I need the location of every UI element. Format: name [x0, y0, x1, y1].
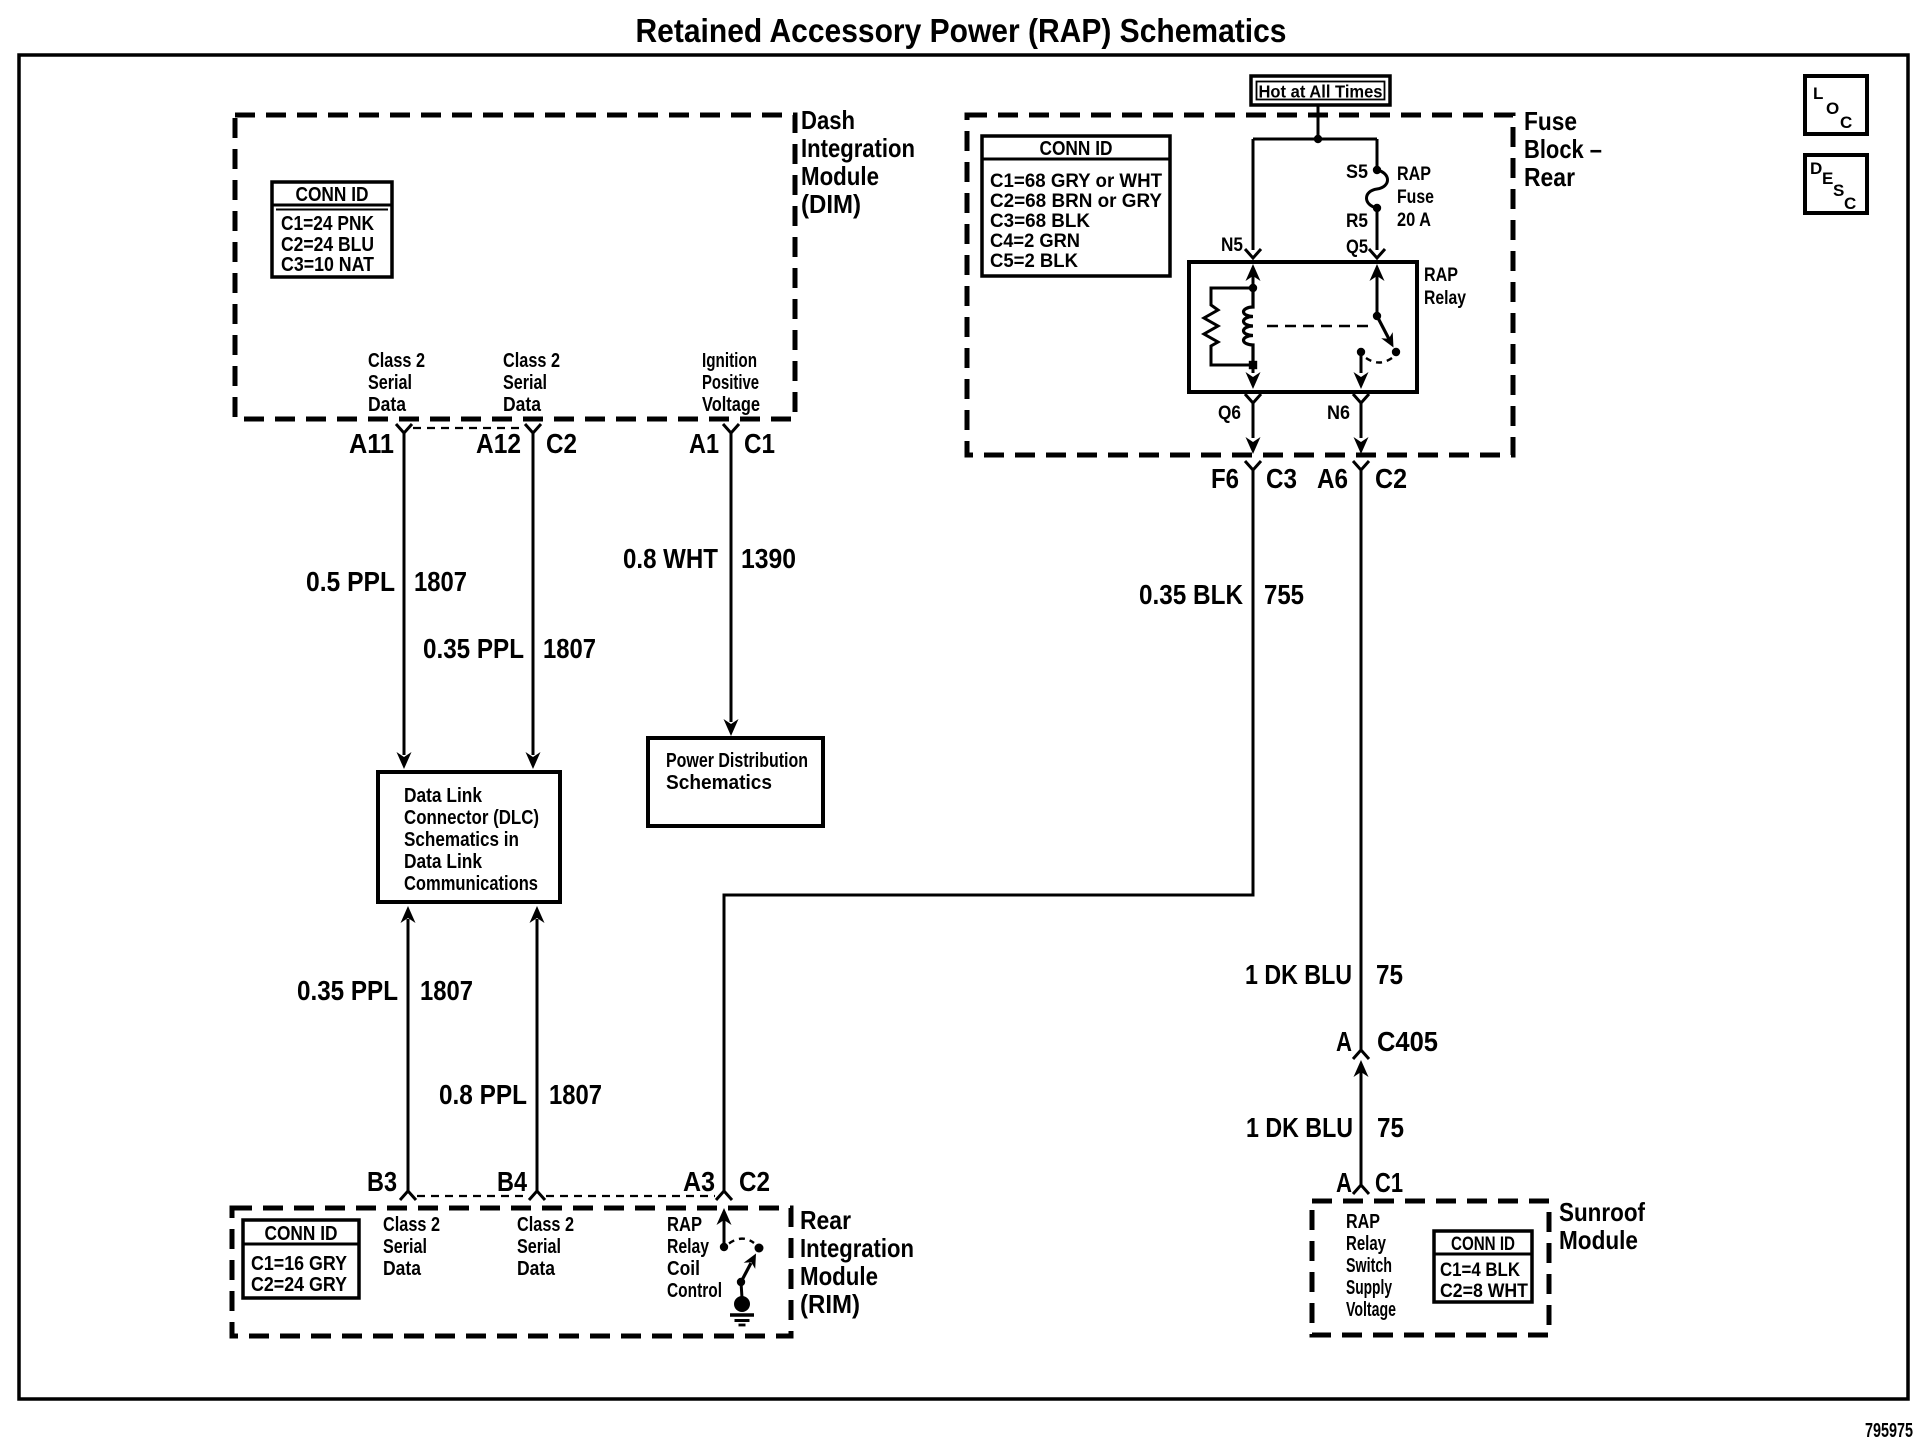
svg-text:Retained Accessory Power (RAP): Retained Accessory Power (RAP) Schematic…: [636, 12, 1287, 49]
fuse value label: RAP Fuse 20 A: [1397, 164, 1434, 231]
svg-text:A6: A6: [1317, 463, 1348, 494]
wire: left branch down to relay coil (N5): [1252, 139, 1255, 250]
module: Dash Integration Module (DIM) dashed outline: [235, 115, 795, 419]
svg-text:C4=2 GRN: C4=2 GRN: [990, 230, 1080, 252]
wire: switch to ground: [741, 1282, 742, 1298]
relay K: RAP Relay box: [1189, 262, 1417, 392]
dashed switch travel arc (RIM): [729, 1239, 754, 1244]
wire: A6 to C405 (1 DK BLU 75): [1360, 470, 1363, 1050]
svg-text:Class 2: Class 2: [368, 350, 425, 372]
svg-text:Fuse: Fuse: [1524, 106, 1577, 136]
pin N6 connector symbol below relay: [1353, 394, 1369, 403]
pin F6 connector symbol (below fuse block): [1245, 461, 1261, 470]
svg-text:Block –: Block –: [1524, 134, 1602, 164]
svg-text:Supply: Supply: [1346, 1277, 1393, 1299]
svg-text:Serial: Serial: [503, 372, 547, 394]
svg-text:(DIM): (DIM): [801, 189, 861, 219]
wire: B4 to DLC (0.8 PPL 1807): [536, 919, 539, 1191]
wire: A11 to DLC (0.5 PPL 1807): [403, 433, 406, 755]
relay coil input arrow (up): [1252, 268, 1255, 288]
pin A12 connector symbol: [525, 424, 541, 433]
svg-text:1807: 1807: [543, 633, 596, 664]
svg-text:Voltage: Voltage: [702, 394, 760, 416]
svg-text:C3=68 BLK: C3=68 BLK: [990, 210, 1090, 232]
svg-text:E: E: [1822, 169, 1833, 188]
svg-text:A11: A11: [349, 428, 394, 459]
svg-text:RAP: RAP: [1397, 164, 1431, 185]
connector C2 dashed link B3-B4: [417, 1195, 528, 1197]
module: Fuse Block - Rear dashed outline: [967, 115, 1513, 455]
svg-text:C1=24 PNK: C1=24 PNK: [281, 213, 374, 235]
svg-text:S5: S5: [1346, 162, 1368, 183]
pin function label: Class 2 Serial Data (A11): [368, 350, 425, 416]
svg-text:C1: C1: [1375, 1167, 1403, 1198]
svg-text:C: C: [1840, 113, 1852, 132]
svg-text:C2=8 WHT: C2=8 WHT: [1440, 1281, 1528, 1302]
pin B3 connector symbol: [400, 1191, 416, 1200]
svg-text:A: A: [1336, 1167, 1352, 1198]
pin function label: Class 2 Serial Data (B4): [517, 1214, 574, 1280]
wire: A1 to Power Distribution (0.8 WHT 1390): [730, 433, 733, 722]
svg-text:RAP: RAP: [1424, 265, 1458, 286]
svg-text:A12: A12: [476, 428, 521, 459]
svg-text:RAP: RAP: [1346, 1211, 1380, 1233]
node: feed junction dot: [1314, 135, 1322, 143]
reference box: DESC: [1805, 155, 1867, 213]
power feed box: Hot at All Times: [1251, 76, 1390, 105]
svg-text:Serial: Serial: [368, 372, 412, 394]
RIM internal: arrow up on A3 coil control wire: [723, 1214, 726, 1247]
svg-text:Data: Data: [383, 1258, 422, 1280]
Fuse Block CONN ID table: [982, 136, 1170, 276]
pin Q5 connector symbol: [1369, 249, 1385, 258]
pin A6 connector symbol (below fuse block): [1353, 461, 1369, 470]
node: switch closed contact dot: [1392, 348, 1400, 356]
pin A11 connector symbol: [396, 424, 412, 433]
svg-text:C2=68 BRN or GRY: C2=68 BRN or GRY: [990, 190, 1162, 212]
svg-text:Connector (DLC): Connector (DLC): [404, 807, 539, 829]
wire: F6 to RIM A3 (0.35 BLK 755): [724, 470, 1253, 1191]
pin function label: Ignition Positive Voltage (A1): [702, 350, 760, 416]
svg-text:0.8 PPL: 0.8 PPL: [439, 1079, 527, 1110]
svg-text:75: 75: [1376, 959, 1403, 990]
pin B4 connector symbol: [529, 1191, 545, 1200]
RIM CONN ID table: [243, 1220, 359, 1298]
svg-text:Data: Data: [517, 1258, 556, 1280]
svg-text:C3=10 NAT: C3=10 NAT: [281, 254, 374, 276]
node: switch lower contact dot: [737, 1278, 745, 1286]
pin A connector symbol at sunroof C1: [1353, 1185, 1369, 1194]
svg-text:Ignition: Ignition: [702, 350, 757, 372]
svg-text:S: S: [1833, 181, 1844, 200]
svg-text:A3: A3: [683, 1166, 715, 1197]
svg-text:Rear: Rear: [1524, 162, 1575, 192]
pin function label: RAP Relay Coil Control (A3): [667, 1214, 722, 1302]
svg-text:Power Distribution: Power Distribution: [666, 750, 808, 772]
svg-text:755: 755: [1264, 579, 1304, 610]
DIM CONN ID table: [272, 182, 392, 277]
pin function label: Class 2 Serial Data (B3): [383, 1214, 440, 1280]
svg-text:L: L: [1813, 84, 1823, 103]
svg-text:1807: 1807: [414, 566, 467, 597]
svg-text:Module: Module: [800, 1261, 878, 1291]
svg-text:C: C: [1844, 194, 1856, 213]
svg-text:Serial: Serial: [383, 1236, 427, 1258]
svg-text:Integration: Integration: [800, 1233, 914, 1263]
svg-text:Control: Control: [667, 1280, 722, 1302]
svg-text:0.35 PPL: 0.35 PPL: [423, 633, 524, 664]
reference box: LOC: [1805, 76, 1867, 134]
svg-text:C2: C2: [739, 1166, 770, 1197]
svg-text:1807: 1807: [420, 975, 473, 1006]
svg-text:1807: 1807: [549, 1079, 602, 1110]
wire: C405 to sunroof C1 (1 DK BLU 75): [1360, 1072, 1363, 1185]
label: Fuse Block - Rear: [1524, 106, 1602, 192]
node: coil bottom junction dot: [1249, 361, 1257, 369]
wire: A12 to DLC (0.35 PPL 1807): [532, 433, 535, 755]
svg-text:Switch: Switch: [1346, 1255, 1392, 1277]
svg-text:R5: R5: [1346, 211, 1368, 232]
module: Sunroof Module dashed outline: [1312, 1201, 1549, 1335]
ground symbol (RIM): [730, 1296, 754, 1325]
wire: right branch down to fuse: [1376, 139, 1379, 168]
svg-text:B4: B4: [497, 1166, 527, 1197]
relay switch arm with arrow: [1377, 316, 1390, 341]
svg-text:C2=24 GRY: C2=24 GRY: [251, 1274, 348, 1296]
svg-text:CONN ID: CONN ID: [1040, 138, 1113, 160]
svg-text:75: 75: [1377, 1112, 1404, 1143]
svg-text:C1=68 GRY or WHT: C1=68 GRY or WHT: [990, 170, 1162, 192]
svg-text:Class 2: Class 2: [503, 350, 560, 372]
svg-text:C1: C1: [744, 428, 775, 459]
svg-text:1 DK BLU: 1 DK BLU: [1245, 959, 1352, 990]
svg-text:C1=16 GRY: C1=16 GRY: [251, 1253, 348, 1275]
svg-text:Schematics in: Schematics in: [404, 829, 519, 851]
svg-text:Data: Data: [368, 394, 407, 416]
svg-text:Positive: Positive: [702, 372, 759, 394]
svg-text:C2: C2: [546, 428, 577, 459]
inline connector C405 pin A: [1353, 1050, 1369, 1077]
svg-text:N5: N5: [1221, 235, 1243, 256]
svg-text:RAP: RAP: [667, 1214, 702, 1236]
label: RAP Relay: [1424, 265, 1466, 309]
svg-text:CONN ID: CONN ID: [265, 1223, 338, 1245]
pin function label: RAP Relay Switch Supply Voltage: [1346, 1211, 1396, 1321]
svg-text:Relay: Relay: [1346, 1233, 1387, 1255]
svg-text:O: O: [1826, 99, 1839, 118]
svg-text:Data Link: Data Link: [404, 851, 483, 873]
node: switch pivot dot (RIM): [755, 1244, 764, 1253]
svg-text:1 DK BLU: 1 DK BLU: [1246, 1112, 1353, 1143]
svg-text:Integration: Integration: [801, 133, 915, 163]
label: Sunroof Module: [1559, 1197, 1645, 1255]
svg-text:Class 2: Class 2: [517, 1214, 574, 1236]
dashed mechanical link coil-to-switch: [1267, 325, 1371, 328]
label: Rear Integration Module (RIM): [800, 1205, 914, 1319]
wire: battery feed from Hot at All Times: [1317, 105, 1320, 139]
svg-text:0.35 BLK: 0.35 BLK: [1139, 579, 1243, 610]
svg-text:B3: B3: [367, 1166, 397, 1197]
svg-text:C3: C3: [1266, 463, 1297, 494]
svg-text:Module: Module: [801, 161, 879, 191]
svg-text:Module: Module: [1559, 1225, 1638, 1255]
svg-text:A: A: [1336, 1026, 1352, 1057]
svg-text:Dash: Dash: [801, 105, 855, 135]
pin function label: Class 2 Serial Data (A12): [503, 350, 560, 416]
wire: N6 to fuse block edge: [1360, 403, 1363, 438]
svg-text:C1=4 BLK: C1=4 BLK: [1440, 1260, 1520, 1281]
pin Q6 connector symbol below relay: [1245, 394, 1261, 403]
svg-text:20 A: 20 A: [1397, 210, 1431, 231]
svg-text:Serial: Serial: [517, 1236, 561, 1258]
fuse S5/R5: RAP Fuse 20 A: [1367, 166, 1388, 212]
wire: Q6 to fuse block edge: [1252, 403, 1255, 438]
switch arm with arrow (RIM internal switch to ground): [741, 1263, 751, 1282]
inductor: relay coil winding: [1244, 288, 1253, 365]
relay coil output arrow (down) to Q6: [1252, 365, 1255, 373]
svg-text:C2: C2: [1375, 463, 1407, 494]
svg-text:Rear: Rear: [800, 1205, 851, 1235]
svg-text:CONN ID: CONN ID: [1451, 1234, 1515, 1255]
svg-text:Sunroof: Sunroof: [1559, 1197, 1645, 1227]
svg-text:C405: C405: [1377, 1026, 1438, 1057]
wire: feed bus horizontal: [1253, 138, 1377, 141]
connector C2 dashed link A11-A12: [413, 427, 523, 429]
pin A1 connector symbol: [723, 424, 739, 433]
Sunroof CONN ID table: [1434, 1231, 1532, 1302]
svg-text:795975: 795975: [1865, 1420, 1913, 1442]
svg-text:Relay: Relay: [667, 1236, 710, 1258]
svg-text:A1: A1: [689, 428, 719, 459]
svg-text:N6: N6: [1327, 403, 1350, 424]
svg-text:Q6: Q6: [1218, 403, 1241, 424]
svg-text:D: D: [1810, 159, 1822, 178]
svg-text:1390: 1390: [741, 543, 796, 574]
pin N5 connector symbol: [1245, 249, 1261, 258]
svg-text:Data: Data: [503, 394, 542, 416]
box: Power Distribution Schematics reference: [648, 738, 823, 826]
module: Rear Integration Module (RIM) dashed outline: [232, 1208, 791, 1336]
wire: fuse to relay switch (Q5): [1376, 208, 1379, 250]
dashed switch travel arc (relay): [1366, 358, 1392, 363]
svg-text:0.8 WHT: 0.8 WHT: [623, 543, 718, 574]
node: switch output dot (N6): [1357, 348, 1365, 356]
svg-text:C5=2 BLK: C5=2 BLK: [990, 250, 1078, 272]
relay switch input arrow (up): [1376, 268, 1379, 316]
svg-text:Communications: Communications: [404, 873, 538, 895]
svg-text:Hot at All Times: Hot at All Times: [1259, 82, 1383, 102]
svg-text:0.5 PPL: 0.5 PPL: [306, 566, 395, 597]
svg-text:C2=24 BLU: C2=24 BLU: [281, 234, 374, 256]
svg-text:F6: F6: [1211, 463, 1239, 494]
svg-text:Fuse: Fuse: [1397, 187, 1434, 208]
connector C2 dashed link B4-A3: [546, 1195, 715, 1197]
node: switch pivot dot: [1373, 312, 1381, 320]
wire: B3 to DLC (0.35 PPL 1807): [407, 919, 410, 1191]
svg-text:Data Link: Data Link: [404, 785, 483, 807]
svg-text:(RIM): (RIM): [800, 1289, 860, 1319]
svg-text:Schematics: Schematics: [666, 772, 772, 794]
svg-text:CONN ID: CONN ID: [296, 184, 369, 206]
svg-text:Coil: Coil: [667, 1258, 700, 1280]
node: coil top junction dot: [1249, 284, 1257, 292]
resistor (relay suppression): [1204, 288, 1253, 365]
relay switch output arrow (down) to N6: [1360, 352, 1363, 373]
svg-text:0.35 PPL: 0.35 PPL: [297, 975, 398, 1006]
box: Data Link Connector (DLC) Schematics reference: [378, 772, 560, 902]
svg-text:Class 2: Class 2: [383, 1214, 440, 1236]
node: coil control contact dot: [720, 1243, 728, 1251]
label: Dash Integration Module (DIM): [801, 105, 915, 219]
svg-text:Q5: Q5: [1346, 237, 1368, 258]
svg-text:Relay: Relay: [1424, 288, 1466, 309]
svg-text:Voltage: Voltage: [1346, 1299, 1396, 1321]
pin A3 connector symbol: [716, 1191, 732, 1200]
